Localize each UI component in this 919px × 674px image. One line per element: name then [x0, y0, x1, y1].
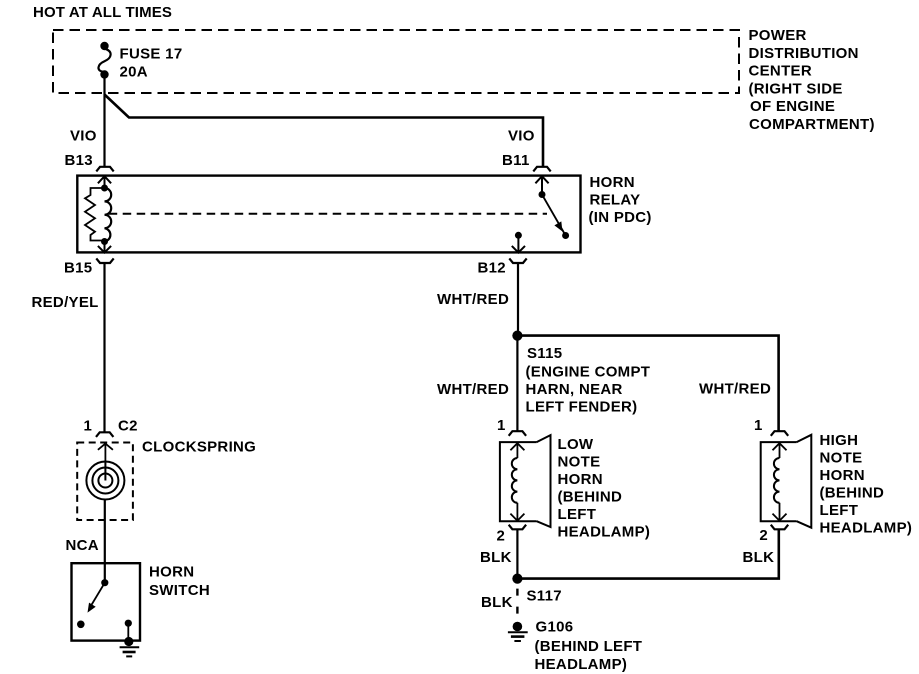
svg-text:RELAY: RELAY — [590, 192, 641, 209]
label HORN RELAY (IN PDC) — [589, 174, 652, 226]
svg-text:20A: 20A — [120, 64, 148, 81]
svg-text:RED/YEL: RED/YEL — [32, 294, 99, 311]
wire S115 to high note horn — [517, 336, 778, 432]
svg-text:2: 2 — [497, 527, 506, 544]
svg-text:1: 1 — [497, 417, 506, 434]
wire branch to B11 — [105, 95, 544, 167]
wire B12 to S115 — [517, 263, 519, 331]
relay node bottom dot — [101, 238, 108, 245]
svg-text:HEADLAMP): HEADLAMP) — [820, 520, 913, 537]
relay switch output arrow B12 — [512, 235, 525, 252]
label 1 C2 — [84, 417, 138, 434]
svg-text:HEADLAMP): HEADLAMP) — [558, 524, 651, 541]
svg-text:C2: C2 — [118, 417, 138, 434]
splice S117 dot — [512, 574, 522, 584]
connector low horn pin 1 — [509, 431, 526, 436]
svg-text:LEFT FENDER): LEFT FENDER) — [526, 399, 638, 416]
svg-text:WHT/RED: WHT/RED — [437, 291, 509, 308]
horn switch blade with arrow — [88, 583, 105, 612]
wire clockspring to horn switch — [104, 500, 106, 584]
label HIGH NOTE HORN — [820, 432, 913, 537]
relay switch contact dot — [562, 232, 569, 239]
relay coil terminal arrow B13 — [98, 176, 111, 188]
low horn coil with arrows — [510, 443, 524, 521]
connector B11 — [533, 167, 550, 172]
wire S117 to G106 dashed — [516, 589, 518, 621]
clockspring dashed box — [77, 443, 133, 521]
svg-text:1: 1 — [84, 417, 93, 434]
svg-text:LEFT: LEFT — [558, 506, 597, 523]
wire S117 to high horn — [517, 529, 778, 578]
svg-text:HIGH: HIGH — [820, 432, 859, 449]
svg-text:OF ENGINE: OF ENGINE — [750, 98, 835, 115]
svg-text:CLOCKSPRING: CLOCKSPRING — [142, 439, 256, 456]
svg-text:LEFT: LEFT — [820, 502, 859, 519]
relay switch terminal arrow B11 — [535, 176, 548, 194]
svg-text:HARN, NEAR: HARN, NEAR — [526, 381, 623, 398]
ground at horn switch — [120, 637, 140, 657]
horn relay box — [77, 176, 580, 253]
connector B15 — [96, 258, 113, 263]
splice S115 dot — [512, 331, 522, 341]
connector low horn pin 2 — [509, 525, 526, 530]
relay coil — [105, 188, 112, 242]
svg-text:VIO: VIO — [70, 127, 97, 144]
horn switch contact dot — [77, 621, 85, 629]
wire switch to ground — [127, 623, 129, 639]
svg-text:HOT AT ALL TIMES: HOT AT ALL TIMES — [33, 4, 172, 21]
svg-text:CENTER: CENTER — [749, 63, 812, 80]
svg-text:(BEHIND LEFT: (BEHIND LEFT — [535, 638, 643, 655]
svg-text:B11: B11 — [502, 152, 530, 169]
wire low horn to S117 — [516, 529, 518, 574]
connector B12 — [509, 258, 526, 263]
connector high horn pin 1 — [771, 431, 788, 436]
relay resistor — [85, 188, 105, 241]
svg-text:B12: B12 — [478, 259, 506, 276]
svg-text:B13: B13 — [65, 152, 93, 169]
high horn coil with arrows — [773, 443, 787, 521]
clockspring spiral — [86, 461, 124, 500]
wire S115 to low note horn — [516, 340, 518, 431]
svg-text:HORN: HORN — [820, 467, 865, 484]
relay switch output dot — [515, 232, 522, 239]
svg-text:NCA: NCA — [66, 537, 99, 554]
svg-text:SWITCH: SWITCH — [149, 582, 210, 599]
horn switch ground contact dot — [125, 620, 132, 627]
clockspring terminal arrow — [98, 444, 113, 462]
relay actuation dashed line — [109, 213, 547, 215]
label POWER DISTRIBUTION CENTER — [749, 27, 875, 133]
svg-text:G106: G106 — [536, 619, 574, 636]
relay switch blade — [542, 195, 566, 236]
label FUSE 17 20A — [120, 46, 183, 81]
svg-text:NOTE: NOTE — [558, 454, 601, 471]
horn switch pivot dot — [101, 579, 108, 586]
svg-text:DISTRIBUTION: DISTRIBUTION — [749, 45, 859, 62]
svg-text:(BEHIND: (BEHIND — [558, 489, 623, 506]
label G106 — [535, 619, 643, 674]
svg-text:COMPARTMENT): COMPARTMENT) — [749, 116, 875, 133]
relay switch pivot dot — [539, 191, 546, 198]
svg-text:LOW: LOW — [558, 436, 594, 453]
relay coil terminal arrow B15 — [98, 242, 111, 253]
label LOW NOTE HORN — [558, 436, 651, 541]
svg-text:2: 2 — [759, 527, 768, 544]
svg-text:(BEHIND: (BEHIND — [820, 485, 885, 502]
high note horn body — [761, 435, 812, 528]
svg-text:(ENGINE COMPT: (ENGINE COMPT — [526, 364, 651, 381]
svg-text:(RIGHT SIDE: (RIGHT SIDE — [749, 80, 843, 97]
svg-text:BLK: BLK — [480, 549, 512, 566]
low note horn body — [500, 435, 551, 527]
svg-text:S117: S117 — [527, 588, 562, 605]
wire fuse to B13 — [103, 78, 105, 167]
svg-text:HORN: HORN — [558, 471, 603, 488]
svg-text:FUSE 17: FUSE 17 — [120, 46, 183, 63]
relay node top dot — [101, 185, 108, 192]
svg-text:BLK: BLK — [743, 549, 775, 566]
svg-text:VIO: VIO — [508, 127, 535, 144]
power distribution center dashed box — [53, 30, 739, 93]
connector high horn pin 2 — [771, 525, 788, 530]
svg-text:B15: B15 — [64, 259, 92, 276]
ground G106 — [508, 622, 528, 641]
horn switch box — [72, 563, 141, 640]
svg-text:S115: S115 — [527, 345, 562, 362]
svg-text:HORN: HORN — [590, 174, 635, 191]
svg-text:HEADLAMP): HEADLAMP) — [535, 656, 628, 673]
svg-text:(IN PDC): (IN PDC) — [589, 209, 652, 226]
label HORN SWITCH — [149, 564, 210, 600]
svg-text:WHT/RED: WHT/RED — [699, 381, 771, 398]
connector C2 — [96, 432, 113, 437]
svg-text:POWER: POWER — [749, 27, 807, 44]
svg-text:HORN: HORN — [149, 564, 194, 581]
fuse F17 20A — [98, 42, 110, 79]
wire B15 to C2 — [103, 263, 105, 432]
svg-text:BLK: BLK — [481, 594, 513, 611]
svg-text:1: 1 — [754, 417, 763, 434]
connector B13 — [96, 167, 113, 172]
svg-text:WHT/RED: WHT/RED — [437, 381, 509, 398]
label S115 — [526, 345, 651, 416]
svg-text:NOTE: NOTE — [820, 450, 863, 467]
